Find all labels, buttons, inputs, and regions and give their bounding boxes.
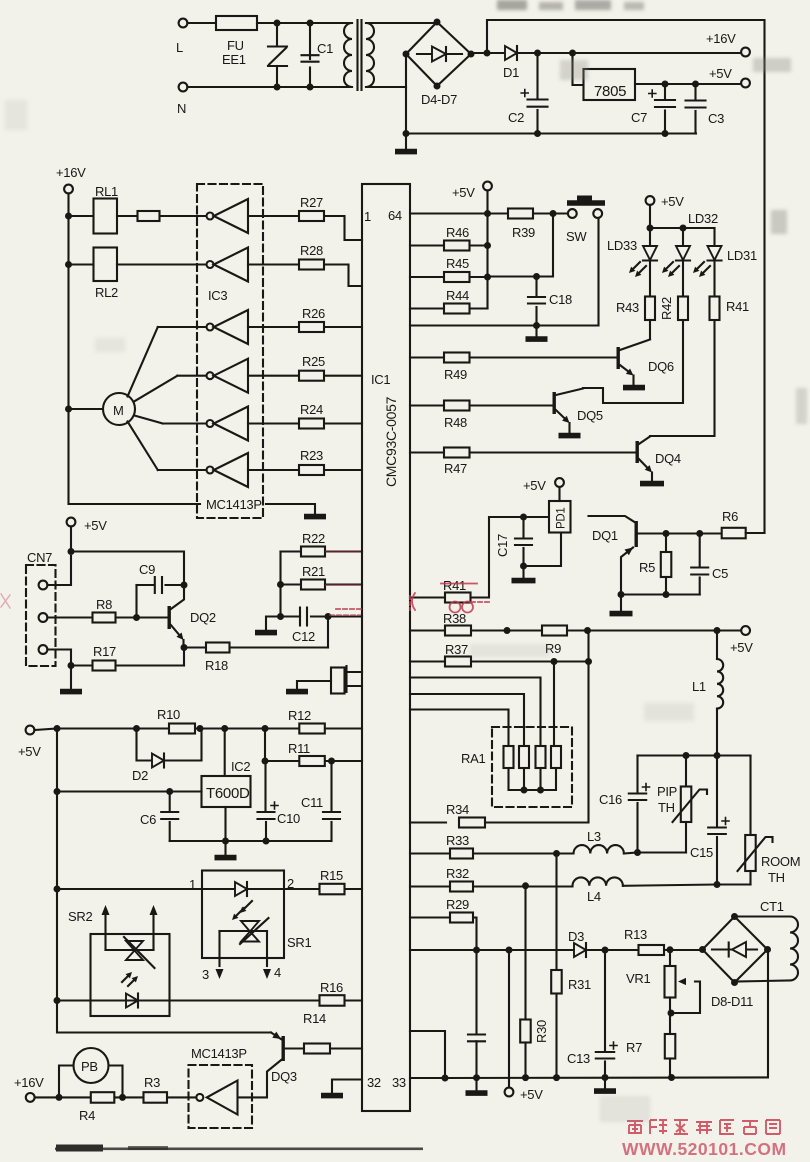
- resistor R4: [35, 1096, 123, 1098]
- wire: [279, 552, 281, 617]
- resistor R5: [665, 534, 667, 553]
- svg-text:R22: R22: [302, 531, 325, 546]
- wire: [264, 729, 266, 762]
- node: [534, 50, 541, 57]
- inverter U3A: [207, 213, 214, 220]
- svg-text:FU: FU: [227, 38, 244, 53]
- resistor R42: [682, 261, 684, 297]
- resistor R33: [410, 852, 574, 854]
- wire +16V rail: [67, 193, 69, 409]
- transistor DQ2: [168, 606, 171, 629]
- optocoupler SR1: [202, 871, 284, 959]
- capacitor C2: [536, 53, 538, 99]
- svg-text:LD33: LD33: [607, 238, 637, 253]
- resistor R26: [248, 326, 362, 328]
- resistor R39: [488, 212, 569, 214]
- wire pin64: [410, 212, 488, 214]
- svg-text:D3: D3: [568, 929, 584, 944]
- wire: [405, 54, 407, 134]
- wire: [488, 214, 554, 277]
- wire: [410, 1031, 445, 1078]
- svg-text:L: L: [176, 40, 183, 55]
- inverter U3C: [207, 324, 214, 331]
- capacitor C6: [169, 792, 171, 812]
- wire: [57, 888, 202, 890]
- transformer core: [358, 20, 362, 90]
- resistor R48: [410, 404, 553, 406]
- ground: [623, 385, 645, 391]
- svg-text:R16: R16: [320, 980, 343, 995]
- wire: [187, 86, 352, 88]
- svg-text:+5V: +5V: [709, 66, 732, 81]
- resistor R10: [169, 724, 195, 734]
- wire: [410, 218, 599, 326]
- capacitor C3: [694, 84, 696, 100]
- svg-text:C17: C17: [495, 534, 510, 557]
- svg-text:DQ1: DQ1: [592, 528, 618, 543]
- svg-text:R14: R14: [303, 1011, 326, 1026]
- svg-text:RL2: RL2: [95, 285, 118, 300]
- svg-text:R18: R18: [205, 658, 228, 673]
- sensor PD1: [549, 501, 571, 533]
- svg-text:R23: R23: [300, 448, 323, 463]
- transistor DQ4: [636, 441, 639, 463]
- capacitor C7: [664, 84, 666, 99]
- ground: [535, 326, 537, 337]
- resistor R46: [410, 244, 488, 246]
- node: [692, 81, 699, 88]
- capacitor C13: [604, 950, 606, 1052]
- wire: [70, 526, 72, 551]
- svg-text:R46: R46: [446, 225, 469, 240]
- svg-text:LD32: LD32: [688, 211, 718, 226]
- resistor R43: [649, 261, 651, 297]
- svg-text:4: 4: [274, 965, 281, 980]
- svg-text:R33: R33: [446, 833, 469, 848]
- wire bottom rail: [445, 950, 768, 1078]
- ground: [559, 433, 581, 439]
- wire +16V line: [471, 52, 741, 54]
- wire long vertical: [472, 631, 589, 823]
- wire base: [638, 532, 722, 534]
- ground: [640, 481, 664, 487]
- resistor R29: [410, 918, 477, 951]
- svg-text:DQ6: DQ6: [648, 359, 674, 374]
- svg-text:C6: C6: [140, 812, 156, 827]
- watermark CJK text: [627, 1120, 780, 1134]
- optocoupler SR2: [91, 934, 170, 1016]
- svg-text:7805: 7805: [594, 83, 626, 100]
- capacitor C1: [309, 23, 311, 59]
- wire +5V col: [486, 190, 488, 308]
- svg-text:C11: C11: [301, 795, 323, 810]
- resistor R32: [410, 885, 573, 887]
- ground: [286, 689, 308, 695]
- svg-text:+5V: +5V: [18, 744, 41, 759]
- svg-text:C15: C15: [690, 845, 713, 860]
- svg-text:R44: R44: [446, 288, 469, 303]
- svg-text:R41: R41: [443, 578, 466, 593]
- svg-text:R31: R31: [568, 977, 591, 992]
- svg-text:RL1: RL1: [95, 184, 118, 199]
- svg-text:1: 1: [189, 877, 196, 892]
- wire: [573, 53, 584, 85]
- node: [569, 50, 576, 57]
- svg-text:DQ2: DQ2: [190, 610, 216, 625]
- svg-text:R30: R30: [534, 1020, 549, 1043]
- resistor R30: [524, 886, 526, 1020]
- svg-text:SR2: SR2: [68, 909, 92, 924]
- svg-text:R43: R43: [616, 300, 639, 315]
- svg-text:R3: R3: [144, 1075, 160, 1090]
- svg-text:N: N: [177, 101, 186, 116]
- svg-text:EE1: EE1: [222, 52, 246, 67]
- terminal +5V: [646, 196, 655, 205]
- svg-text:R6: R6: [722, 509, 738, 524]
- svg-text:TH: TH: [658, 800, 675, 815]
- terminal +5V: [67, 518, 76, 527]
- resistor R16: [57, 999, 362, 1001]
- bridge D4-D7: [406, 22, 471, 86]
- fuse FU: [216, 16, 257, 30]
- capacitor C10: [264, 761, 266, 812]
- inverter U3E: [207, 420, 214, 427]
- resistor R21: [281, 583, 363, 585]
- svg-text:+5V: +5V: [520, 1087, 543, 1102]
- svg-text:+5V: +5V: [523, 478, 546, 493]
- wire: [366, 22, 437, 24]
- svg-text:64: 64: [388, 208, 402, 223]
- svg-text:R24: R24: [300, 402, 323, 417]
- svg-text:R15: R15: [320, 868, 343, 883]
- transistor DQ1: [589, 516, 635, 522]
- IC U1 CMC93C-0057: [362, 184, 410, 1111]
- svg-text:ROOM: ROOM: [761, 854, 800, 869]
- svg-text:PIP: PIP: [657, 784, 677, 799]
- capacitor C17: [522, 517, 524, 538]
- svg-text:R13: R13: [624, 927, 647, 942]
- svg-text:+16V: +16V: [56, 165, 86, 180]
- ground: [604, 1078, 606, 1089]
- svg-text:L1: L1: [692, 679, 706, 694]
- svg-text:CT1: CT1: [760, 899, 784, 914]
- resistor: [117, 215, 207, 217]
- resistor R24: [248, 422, 362, 424]
- svg-text:C13: C13: [567, 1051, 590, 1066]
- potentiometer VR1: [669, 950, 671, 966]
- transformer T primary: [344, 23, 352, 87]
- transistor DQ6: [617, 347, 620, 369]
- inverter U3F: [207, 467, 214, 474]
- svg-text:R17: R17: [93, 644, 116, 659]
- ground: [620, 595, 622, 612]
- svg-text:C7: C7: [631, 110, 647, 125]
- sensor PB: [59, 1066, 123, 1098]
- svg-text:L4: L4: [587, 889, 601, 904]
- resistor R44: [410, 307, 488, 309]
- wire: [47, 556, 71, 585]
- terminal N: [179, 83, 188, 92]
- capacitor C12: [281, 615, 301, 617]
- svg-text:R34: R34: [446, 802, 469, 817]
- terminal +5V: [26, 726, 35, 735]
- svg-text:R47: R47: [444, 461, 467, 476]
- svg-text:CMC93C-0057: CMC93C-0057: [383, 396, 399, 487]
- transistor DQ3: [272, 1032, 281, 1039]
- svg-text:C10: C10: [277, 811, 300, 826]
- resistor R34: [410, 821, 446, 823]
- resistor R37: [410, 660, 589, 662]
- wire top border: [487, 20, 765, 533]
- LED LD31: [713, 228, 715, 246]
- inductor L4: [573, 877, 623, 885]
- svg-text:+5V: +5V: [452, 185, 475, 200]
- resistor R41: [713, 261, 715, 297]
- svg-text:PD1: PD1: [556, 508, 568, 529]
- svg-text:R25: R25: [302, 354, 325, 369]
- svg-text:R8: R8: [96, 597, 112, 612]
- svg-text:R39: R39: [512, 225, 535, 240]
- svg-text:R49: R49: [444, 367, 467, 382]
- inverter U3B: [207, 261, 214, 268]
- svg-text:R29: R29: [446, 897, 469, 912]
- LED LD32: [682, 228, 684, 246]
- wire +5V rail: [34, 729, 271, 1033]
- artifact bottom line: [55, 1145, 423, 1152]
- terminal L: [179, 19, 188, 28]
- capacitor C19: [475, 950, 477, 1034]
- capacitor C16: [636, 756, 638, 794]
- IC IC3 box: [197, 184, 263, 518]
- svg-text:+5V: +5V: [84, 518, 107, 533]
- svg-text:R21: R21: [302, 564, 325, 579]
- svg-text:C5: C5: [712, 566, 728, 581]
- svg-text:C1: C1: [317, 41, 333, 56]
- terminal +5V: [508, 950, 510, 1088]
- inductor L1: [716, 631, 718, 660]
- resistor R47: [410, 451, 636, 453]
- IC IC2 T600D: [224, 729, 226, 777]
- svg-text:DQ4: DQ4: [655, 451, 681, 466]
- capacitor C5: [699, 534, 701, 568]
- inverter U3D: [207, 372, 214, 379]
- resistor R11: [265, 760, 362, 762]
- svg-text:R12: R12: [288, 708, 311, 723]
- resistor R17: [47, 650, 71, 666]
- svg-text:IC2: IC2: [231, 759, 250, 774]
- switch SW: [568, 209, 577, 218]
- wire: [57, 790, 202, 792]
- svg-text:L3: L3: [587, 829, 601, 844]
- svg-text:+5V: +5V: [730, 640, 753, 655]
- diode D2: [137, 729, 202, 761]
- transistor DQ5: [553, 392, 556, 414]
- wire: [635, 83, 741, 85]
- resistor R14: [285, 1047, 362, 1049]
- svg-text:C2: C2: [508, 110, 524, 125]
- ground: [304, 514, 326, 520]
- relay RL1: [69, 215, 94, 217]
- svg-text:R48: R48: [444, 415, 467, 430]
- svg-text:R26: R26: [302, 306, 325, 321]
- svg-text:IC1: IC1: [371, 372, 390, 387]
- svg-text:SR1: SR1: [287, 935, 311, 950]
- resistor R27: [248, 216, 362, 240]
- svg-text:R37: R37: [445, 642, 468, 657]
- resistor R12: [299, 724, 325, 734]
- wire: [621, 593, 700, 595]
- crystal X1: [348, 672, 363, 686]
- terminal +5V: [741, 626, 750, 635]
- motor M: [69, 408, 104, 410]
- inductor L3: [574, 845, 624, 853]
- svg-text:D8-D11: D8-D11: [711, 994, 753, 1009]
- svg-text:+5V: +5V: [661, 194, 684, 209]
- resistor R41: [410, 517, 549, 598]
- svg-text:R7: R7: [626, 1040, 642, 1055]
- node: [680, 225, 687, 232]
- svg-text:1: 1: [364, 209, 371, 224]
- svg-text:PB: PB: [81, 1059, 98, 1074]
- svg-text:C16: C16: [599, 792, 622, 807]
- svg-text:+16V: +16V: [14, 1075, 44, 1090]
- resistor R38: [410, 629, 741, 631]
- resistor R9: [542, 626, 567, 636]
- svg-text:DQ3: DQ3: [271, 1069, 297, 1084]
- svg-text:C18: C18: [549, 292, 572, 307]
- capacitor C18: [535, 277, 537, 297]
- resistor R6: [722, 528, 746, 539]
- resistor R15: [284, 888, 362, 890]
- svg-text:R28: R28: [300, 243, 323, 258]
- LED LD33: [643, 246, 657, 260]
- node: [484, 50, 491, 57]
- svg-text:M: M: [113, 403, 124, 418]
- resistor R25: [248, 375, 362, 377]
- ground: [475, 1078, 477, 1091]
- resistor R13: [639, 945, 665, 955]
- node: [662, 81, 669, 88]
- ground: [321, 1093, 343, 1099]
- svg-text:C3: C3: [708, 111, 724, 126]
- svg-text:VR1: VR1: [626, 971, 650, 986]
- svg-text:R27: R27: [300, 195, 323, 210]
- wire: [187, 22, 216, 24]
- relay RL2: [69, 263, 94, 265]
- svg-text:C12: C12: [292, 629, 315, 644]
- svg-text:D2: D2: [132, 768, 148, 783]
- svg-text:RA1: RA1: [461, 751, 485, 766]
- resistor R45: [410, 276, 488, 278]
- wire: [524, 533, 562, 567]
- ground: [405, 134, 407, 150]
- wire D3 row: [410, 949, 703, 951]
- svg-text:D1: D1: [503, 65, 519, 80]
- ground T600D: [224, 807, 226, 855]
- wire: [366, 86, 406, 88]
- wire: [257, 22, 352, 24]
- resistor R7: [665, 1034, 676, 1059]
- wire pin32 gnd: [332, 1080, 362, 1094]
- wire: [57, 727, 362, 729]
- wire: [327, 617, 329, 648]
- resistor R31: [555, 854, 557, 971]
- svg-text:LD31: LD31: [727, 248, 757, 263]
- terminal +5V: [555, 478, 564, 487]
- node: [307, 20, 314, 27]
- wire: [638, 754, 751, 756]
- thermistor PIP TH: [685, 756, 687, 787]
- svg-text:MC1413P: MC1413P: [191, 1046, 247, 1061]
- diode D3: [574, 943, 586, 957]
- capacitor C9: [137, 584, 155, 586]
- ground: [522, 566, 524, 578]
- svg-text:IC3: IC3: [208, 288, 227, 303]
- svg-text:R41: R41: [726, 299, 749, 314]
- svg-text:TH: TH: [768, 870, 785, 885]
- svg-text:D4-D7: D4-D7: [421, 92, 457, 107]
- resistor array RA1: [492, 727, 572, 807]
- watermark red middle: [1, 552, 489, 616]
- svg-text:R11: R11: [288, 741, 310, 756]
- resistor R3: [167, 1096, 196, 1098]
- wire: [170, 840, 332, 842]
- svg-text:T600D: T600D: [206, 785, 250, 802]
- capacitor C15: [716, 756, 718, 828]
- wire: [69, 409, 201, 504]
- svg-text:C9: C9: [139, 562, 155, 577]
- svg-text:33: 33: [392, 1075, 406, 1090]
- bridge D8-D11: [703, 917, 768, 983]
- svg-text:32: 32: [367, 1075, 381, 1090]
- svg-text:3: 3: [202, 967, 209, 982]
- svg-text:R4: R4: [79, 1108, 95, 1123]
- svg-text:MC1413P: MC1413P: [206, 497, 262, 512]
- capacitor C11: [330, 761, 332, 812]
- wire pin33: [410, 1077, 445, 1079]
- svg-text:CN7: CN7: [27, 550, 52, 565]
- svg-text:R32: R32: [446, 866, 469, 881]
- resistor R49: [410, 356, 617, 358]
- varistor EE1: [276, 23, 278, 46]
- resistor R22: [281, 550, 363, 552]
- resistor R23: [248, 469, 362, 471]
- ground: [266, 617, 281, 631]
- resistor R8: [47, 616, 168, 618]
- ground: [70, 666, 72, 690]
- svg-text:DQ5: DQ5: [577, 408, 603, 423]
- wire gnd rail: [406, 132, 696, 134]
- svg-text:R5: R5: [639, 560, 655, 575]
- resistor R18: [184, 646, 328, 648]
- transformer T secondary: [366, 23, 374, 87]
- svg-text:SW: SW: [566, 229, 587, 244]
- svg-text:R42: R42: [659, 297, 674, 320]
- svg-text:R10: R10: [157, 707, 180, 722]
- thermistor ROOM TH: [749, 756, 751, 836]
- svg-text:WWW.520101.COM: WWW.520101.COM: [622, 1139, 787, 1159]
- diode D1: [505, 46, 517, 60]
- wire: [183, 648, 185, 666]
- resistor R28: [248, 265, 362, 287]
- svg-text:R45: R45: [446, 256, 469, 271]
- svg-text:+16V: +16V: [706, 31, 736, 46]
- regulator 7805: [584, 69, 636, 100]
- wire: [649, 205, 651, 246]
- node: [274, 20, 281, 27]
